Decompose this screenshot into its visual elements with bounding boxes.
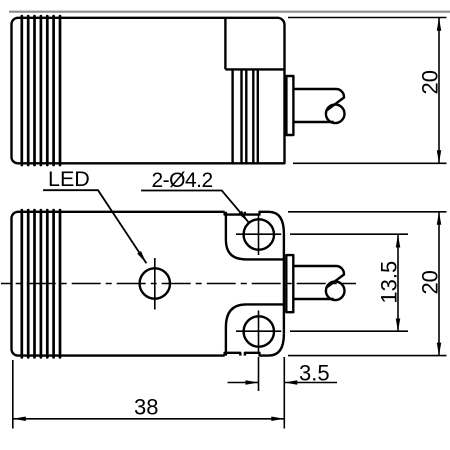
- dim 13.5 line: [397, 234, 399, 331]
- dim 3.5 extension line: [258, 357, 260, 391]
- arrow dim13.5 up: [396, 235, 401, 248]
- dim 38 extension lines: [13, 357, 285, 429]
- dim 20 top view extension lines: [288, 18, 447, 164]
- bottom view LED circle: [140, 268, 170, 298]
- svg-text:2-Ø4.2: 2-Ø4.2: [152, 169, 213, 192]
- svg-text:LED: LED: [48, 167, 90, 191]
- dim 3.5 arrows lines: [228, 382, 338, 384]
- arrow dim38 left: [13, 417, 26, 422]
- bottom view plug flange: [286, 255, 293, 312]
- bottom view top ear boss: [226, 212, 284, 260]
- svg-text:20: 20: [418, 270, 443, 294]
- top view plug cable circle: [326, 105, 345, 124]
- bottom view ribs: [22, 210, 60, 357]
- svg-text:3.5: 3.5: [299, 361, 330, 386]
- svg-text:20: 20: [418, 70, 443, 94]
- dim 20 top view line: [438, 18, 440, 164]
- LED crosshair vertical: [154, 258, 156, 310]
- bottom view top hole: [244, 219, 274, 249]
- bottom hole crosshairs: [236, 311, 281, 353]
- arrow dim20 top view up: [437, 18, 442, 31]
- svg-text:13.5: 13.5: [377, 261, 402, 304]
- arrow dim3.5 left pointing right: [246, 380, 259, 385]
- bottom view plug cable circle: [326, 282, 345, 301]
- LED label underline and leader: [43, 190, 146, 263]
- arrow dim3.5 right pointing left: [284, 380, 297, 385]
- arrow dim20 bottom view down: [437, 343, 442, 356]
- top view plug body: [293, 89, 344, 122]
- arrow dim13.5 down: [396, 319, 401, 332]
- top hole crosshairs: [236, 214, 281, 256]
- arrow dim20 top view down: [437, 150, 442, 163]
- arrow 2-dia4.2 leader: [238, 211, 248, 223]
- top view ribs: [22, 16, 60, 165]
- bottom view rear face: [283, 234, 285, 334]
- bottom view plug body: [293, 266, 344, 299]
- top view lower rib section: [233, 69, 258, 163]
- arrow LED leader: [137, 251, 146, 263]
- dim 20 bottom view line: [438, 212, 440, 356]
- top view body: [11, 18, 284, 164]
- dim 20 bottom view extension lines: [288, 212, 447, 356]
- top view plug flange: [286, 76, 293, 135]
- dim 38 line: [13, 418, 285, 420]
- svg-text:38: 38: [134, 395, 158, 420]
- bottom view bottom hole: [244, 316, 274, 346]
- dim 13.5 extension lines: [290, 234, 408, 331]
- bottom view bottom ear boss: [226, 304, 284, 355]
- top view connector block: [225, 18, 284, 70]
- arrow dim20 bottom view up: [437, 212, 442, 225]
- bottom view body: [12, 212, 225, 356]
- centerline: [1, 283, 356, 285]
- bottom view rear plate bottom edge: [225, 334, 284, 356]
- 2-dia4.2 label underline and leader: [141, 191, 249, 223]
- arrow dim38 right: [271, 417, 284, 422]
- scan artifact grey band: [9, 11, 450, 13]
- bottom view rear plate top edge: [225, 212, 284, 234]
